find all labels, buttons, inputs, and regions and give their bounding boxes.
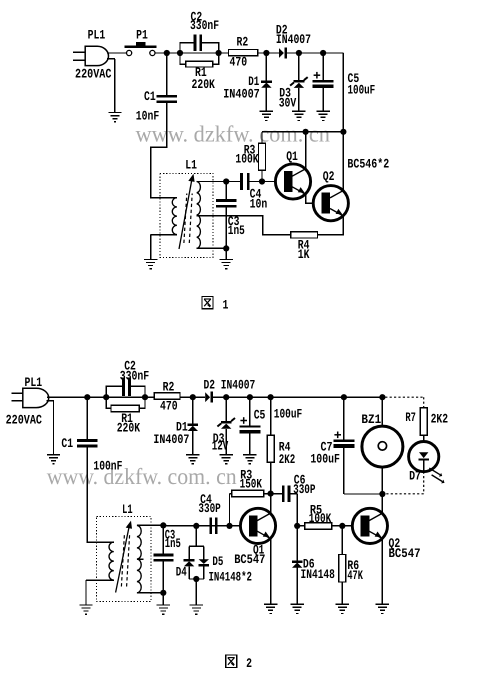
svg-text:Q2: Q2 (323, 169, 335, 184)
svg-text:2K2: 2K2 (279, 452, 296, 467)
svg-text:BC547: BC547 (389, 546, 421, 561)
svg-text:L1: L1 (122, 502, 133, 517)
svg-text:www. dzkfw. com. cn: www. dzkfw. com. cn (136, 122, 331, 147)
svg-text:470: 470 (230, 55, 248, 70)
svg-text:BZ1: BZ1 (361, 412, 381, 427)
svg-text:C5: C5 (254, 408, 266, 423)
svg-text:www. dzkfw. com. cn: www. dzkfw. com. cn (47, 464, 237, 489)
svg-text:R2: R2 (237, 35, 249, 50)
svg-text:P1: P1 (136, 28, 148, 43)
svg-text:100uF: 100uF (274, 407, 303, 422)
svg-text:100K: 100K (235, 152, 258, 167)
svg-text:PL1: PL1 (25, 375, 43, 390)
svg-text:R2: R2 (163, 380, 175, 395)
svg-text:IN4148: IN4148 (301, 567, 336, 582)
svg-text:150K: 150K (240, 476, 263, 491)
svg-text:47K: 47K (347, 568, 363, 583)
svg-text:30V: 30V (279, 95, 297, 110)
svg-text:C1: C1 (144, 89, 156, 104)
svg-text:100uF: 100uF (348, 83, 376, 98)
svg-text:IN4007: IN4007 (223, 87, 260, 102)
svg-text:D4: D4 (176, 565, 187, 580)
svg-text:D5: D5 (212, 554, 223, 569)
svg-text:BC546*2: BC546*2 (347, 156, 389, 171)
svg-text:220K: 220K (192, 77, 216, 92)
svg-text:10n: 10n (250, 197, 268, 212)
svg-text:100nF: 100nF (93, 459, 122, 474)
svg-text:470: 470 (160, 399, 178, 414)
svg-text:IN4007: IN4007 (276, 32, 311, 47)
svg-text:220VAC: 220VAC (75, 67, 112, 82)
svg-text:Q1: Q1 (286, 149, 298, 164)
svg-text:R7: R7 (405, 410, 416, 425)
svg-text:D2 IN4007: D2 IN4007 (204, 377, 256, 392)
svg-text:1: 1 (223, 298, 229, 313)
svg-text:330P: 330P (198, 501, 221, 516)
svg-text:10nF: 10nF (136, 109, 160, 124)
svg-text:IN4007: IN4007 (153, 432, 189, 447)
svg-text:L1: L1 (185, 158, 197, 173)
svg-text:330P: 330P (293, 482, 316, 497)
svg-text:1n5: 1n5 (165, 536, 181, 551)
svg-text:330nF: 330nF (120, 368, 150, 383)
svg-text:220VAC: 220VAC (6, 413, 43, 428)
svg-text:12V: 12V (212, 439, 229, 454)
svg-text:2K2: 2K2 (431, 411, 449, 426)
svg-text:IN4148*2: IN4148*2 (209, 569, 253, 584)
svg-text:220K: 220K (117, 421, 141, 436)
svg-text:1n5: 1n5 (228, 223, 245, 238)
svg-text:C1: C1 (61, 436, 73, 451)
svg-text:BC547: BC547 (234, 552, 265, 567)
svg-text:100uF: 100uF (310, 452, 340, 467)
svg-text:PL1: PL1 (88, 28, 106, 43)
svg-text:2: 2 (246, 656, 252, 671)
svg-text:330nF: 330nF (190, 18, 219, 33)
svg-text:1K: 1K (298, 247, 310, 262)
svg-text:D7: D7 (409, 468, 421, 483)
svg-text:100K: 100K (309, 511, 332, 526)
